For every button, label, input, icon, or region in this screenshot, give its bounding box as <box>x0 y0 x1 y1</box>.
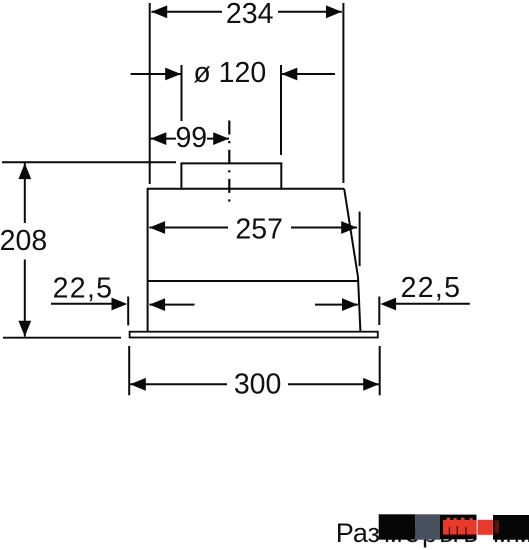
arrowhead 208 up <box>18 163 31 179</box>
dia 120 left tick <box>181 65 183 121</box>
watermark black rect C <box>493 515 529 540</box>
300 extension line left <box>128 346 130 395</box>
hood right diagonal edge <box>344 189 358 277</box>
arrowhead 257 left <box>149 221 165 234</box>
extension line 208 top (y=162) <box>2 161 176 163</box>
dia 120 right leader line <box>282 73 336 75</box>
watermark red logo letter bumps <box>447 518 451 521</box>
dimension 208 line bottom segment <box>24 260 26 337</box>
svg-text:99: 99 <box>175 122 207 154</box>
arrowhead 22,5 right inner (points right) <box>342 298 358 311</box>
arrowhead 234 left <box>151 5 167 18</box>
arrowhead 300 left <box>130 378 146 391</box>
watermark slate rect <box>415 514 440 539</box>
svg-text:208: 208 <box>0 225 47 257</box>
arrowhead 257 right <box>341 221 357 234</box>
dimension 300 line right segment <box>288 383 379 385</box>
300 extension line right <box>379 346 381 395</box>
arrowhead 234 right <box>326 5 342 18</box>
dimension 99 line left segment <box>151 138 177 140</box>
arrowhead 208 down <box>18 321 31 337</box>
hood left edge <box>147 188 149 332</box>
dimension 257 line right segment <box>291 227 357 229</box>
arrowhead 22,5 right outer (points left) <box>380 298 396 311</box>
arrowhead 300 right <box>363 378 379 391</box>
watermark red logo letter gaps <box>449 527 450 535</box>
dimension 234 line left segment <box>151 11 222 13</box>
22,5 left leader line <box>51 303 122 305</box>
arrowhead 99 right <box>213 132 229 145</box>
extension line 208 bottom (y=337.7) <box>3 337 121 339</box>
duct collar left edge <box>180 163 182 189</box>
22,5 right tick <box>378 297 380 326</box>
watermark red logo left part <box>443 520 476 535</box>
hood divider line <box>148 280 359 282</box>
dimension 257 line left segment <box>149 227 228 229</box>
257 right tick <box>359 212 361 266</box>
svg-text:ø 120: ø 120 <box>193 57 266 89</box>
svg-text:300: 300 <box>234 368 282 400</box>
22,5 left tick <box>127 297 129 326</box>
arrowhead 22,5 left inner (points left) <box>149 298 165 311</box>
centerline dash-dot <box>228 121 230 203</box>
arrowhead dia120 left (points right) <box>165 68 181 81</box>
svg-text:22,5: 22,5 <box>401 272 462 304</box>
extension line right vertical x=343.4 <box>342 3 344 183</box>
22,5 right inner arrow shaft <box>315 304 358 306</box>
svg-text:Раз: Раз <box>336 518 380 548</box>
svg-text:22,5: 22,5 <box>53 272 114 304</box>
hood right lower edge <box>358 277 360 332</box>
watermark black rect B <box>440 515 477 540</box>
base plate <box>130 332 378 338</box>
arrowhead dia120 right (points left) <box>282 68 298 81</box>
22,5 left inner arrow shaft <box>150 304 195 306</box>
dia 120 left leader line <box>131 73 181 75</box>
dimension 99 line right segment <box>207 138 229 140</box>
arrowhead 22,5 left outer (points right) <box>112 298 128 311</box>
hood top edge <box>148 188 345 190</box>
svg-text:257: 257 <box>235 214 283 246</box>
watermark faint red mark on black C <box>495 521 500 534</box>
arrowhead 99 left <box>151 132 167 145</box>
watermark red logo right part <box>478 520 493 535</box>
dimension 234 line right segment <box>278 11 342 13</box>
dimension 208 line top segment <box>24 163 26 223</box>
dia 120 right tick <box>280 65 282 155</box>
duct collar top edge <box>181 162 283 164</box>
extension line left vertical x=150 <box>149 3 151 184</box>
dimension 300 line left segment <box>130 383 227 385</box>
duct collar right edge <box>280 163 282 189</box>
22,5 right leader line <box>385 303 470 305</box>
svg-text:234: 234 <box>226 0 274 30</box>
watermark black rect A <box>379 514 416 539</box>
